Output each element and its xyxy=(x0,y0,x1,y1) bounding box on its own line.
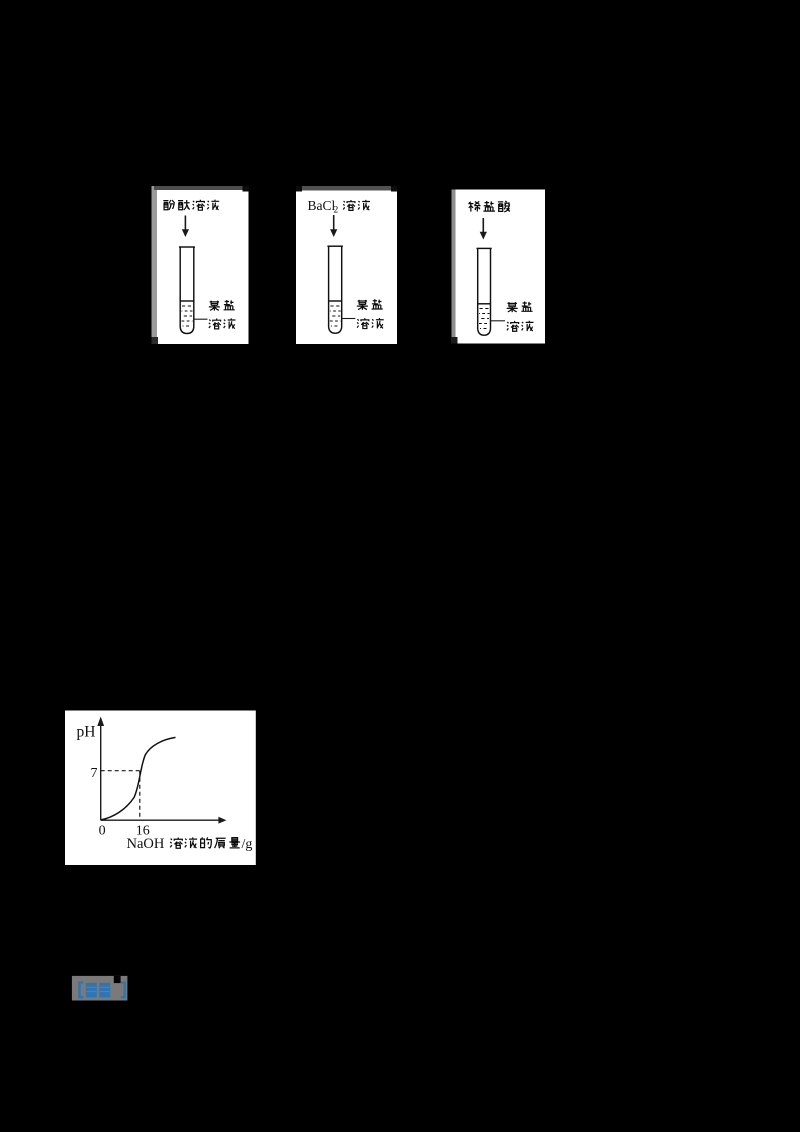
svg-text:2: 2 xyxy=(334,206,339,216)
label 某盐 (figure 1) xyxy=(209,300,235,311)
dashed guide lines xyxy=(101,771,140,821)
arrow (figure 1) xyxy=(182,216,189,238)
label 溶液 (figure 3) xyxy=(507,321,534,332)
titration pH curve xyxy=(101,737,176,820)
figure 2 box (BaCl2 test) xyxy=(296,186,397,344)
pointer line (figure 1) xyxy=(194,318,208,320)
highlighted answer link box xyxy=(72,976,128,1001)
svg-text:/g: /g xyxy=(242,837,253,852)
blue glyph blob 1 xyxy=(86,983,97,998)
svg-text:NaOH: NaOH xyxy=(127,836,165,852)
label 溶液 (figure 1) xyxy=(209,318,236,329)
arrow (figure 3) xyxy=(480,218,487,240)
arrow (figure 2) xyxy=(330,215,337,237)
label 某盐 (figure 3) xyxy=(507,301,533,312)
label 酚酞溶液 (figure 1 top) xyxy=(163,200,219,211)
x axis xyxy=(101,817,227,824)
svg-text:0: 0 xyxy=(99,824,106,839)
svg-text:pH: pH xyxy=(77,724,96,741)
figure 3 box (dilute HCl test) xyxy=(451,190,545,344)
pH graph box xyxy=(65,711,256,866)
label 溶液 (figure 2) xyxy=(357,318,384,329)
figure 1 box (phenolphthalein test) xyxy=(152,186,250,344)
pointer line (figure 3) xyxy=(491,320,506,322)
x axis caption NaOH 溶液的质量/g xyxy=(127,836,253,852)
blue glyph blob 2 xyxy=(99,983,110,998)
test tube (figure 3) xyxy=(477,248,492,335)
label BaCl2溶液 (figure 2 top) xyxy=(308,198,370,216)
label 稀盐酸 (figure 3 top) xyxy=(468,201,510,212)
pointer line (figure 2) xyxy=(342,318,356,320)
y axis xyxy=(97,717,104,821)
label 某盐 (figure 2) xyxy=(357,299,383,310)
blue bracket 】 xyxy=(121,983,125,998)
test tube (figure 1) xyxy=(179,247,195,334)
svg-text:7: 7 xyxy=(91,766,98,781)
blue bracket 【 xyxy=(79,983,83,998)
test tube (figure 2) xyxy=(327,246,343,333)
svg-text:BaCl: BaCl xyxy=(308,198,336,213)
